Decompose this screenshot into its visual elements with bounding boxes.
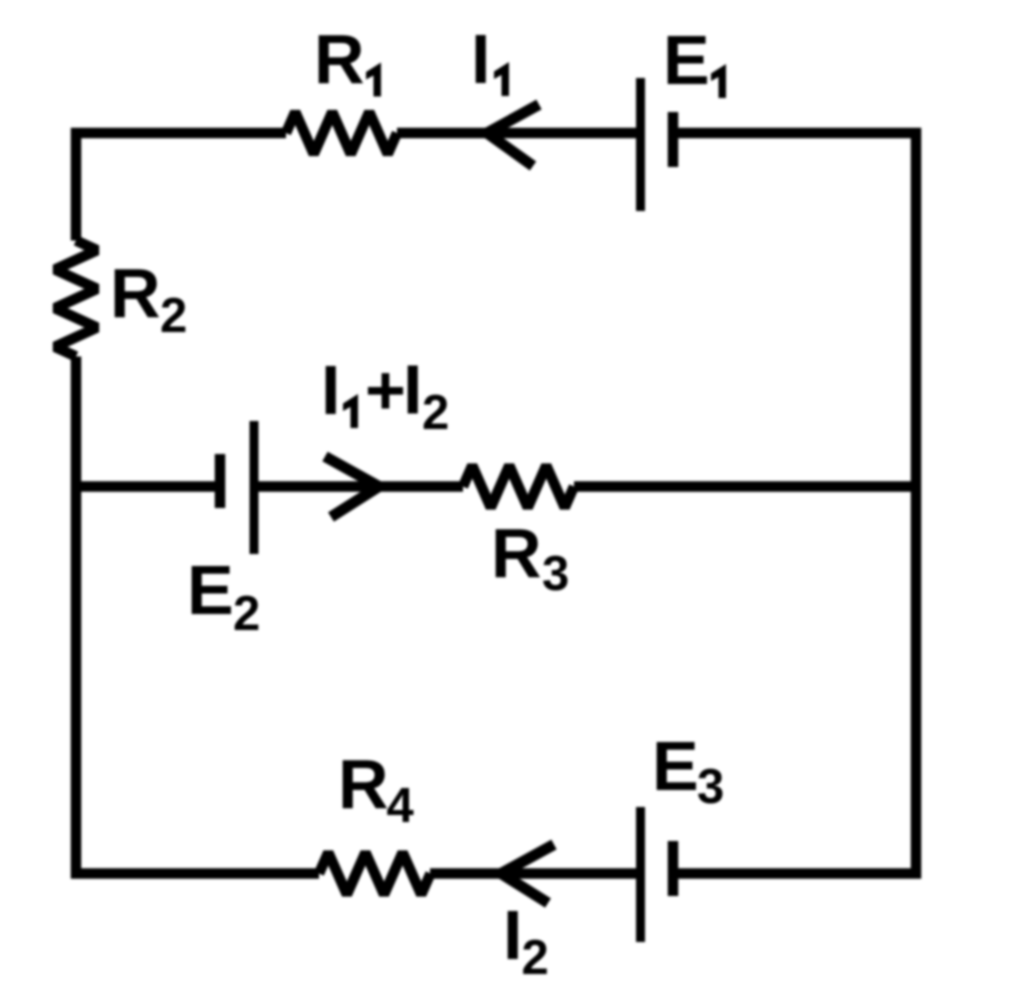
svg-text:I: I (503, 896, 522, 974)
svg-text:R: R (491, 514, 542, 592)
battery E3 long plate (636, 807, 645, 942)
svg-text:3: 3 (697, 760, 724, 814)
svg-text:+: + (365, 351, 406, 429)
resistor R3 (463, 466, 574, 508)
wire bottom-right, right side, top-right segment (673, 133, 916, 874)
arrow I1+I2 current direction (325, 457, 379, 518)
battery E2 short plate (215, 454, 226, 508)
resistor R1 (286, 112, 397, 154)
wire top between R1 and E1 (397, 128, 641, 139)
svg-text:R: R (314, 20, 365, 98)
svg-text:I: I (471, 20, 490, 98)
svg-text:2: 2 (422, 386, 449, 440)
svg-text:E: E (652, 727, 699, 805)
wire middle from E2 to R3 (254, 481, 463, 492)
wire middle left from node to E2 (76, 481, 220, 492)
svg-text:2: 2 (233, 587, 260, 641)
resistor R2 (55, 241, 97, 357)
svg-text:E: E (663, 21, 710, 99)
svg-text:R: R (110, 254, 161, 332)
battery E2 long plate (250, 421, 259, 554)
wire middle right from R3 to right side (574, 481, 916, 492)
resistor R4 (319, 853, 431, 895)
battery E1 short plate (668, 112, 679, 167)
svg-text:I: I (403, 351, 422, 429)
svg-text:2: 2 (522, 931, 549, 985)
battery E1 long plate (636, 78, 645, 211)
svg-text:E: E (187, 551, 234, 629)
arrow I2 current direction (501, 845, 554, 904)
wire left side lower, bottom-left corner, bottom to R4 (76, 357, 319, 874)
battery E3 short plate (668, 841, 679, 896)
svg-text:R: R (338, 745, 389, 823)
svg-text:I: I (321, 351, 340, 429)
svg-text:2: 2 (160, 289, 187, 343)
svg-text:4: 4 (387, 779, 414, 833)
wire top-left segment and left side upper (76, 133, 286, 241)
arrow I1 current direction (487, 105, 539, 167)
wire bottom between R4 and E3 (430, 868, 641, 879)
svg-text:3: 3 (542, 547, 569, 601)
